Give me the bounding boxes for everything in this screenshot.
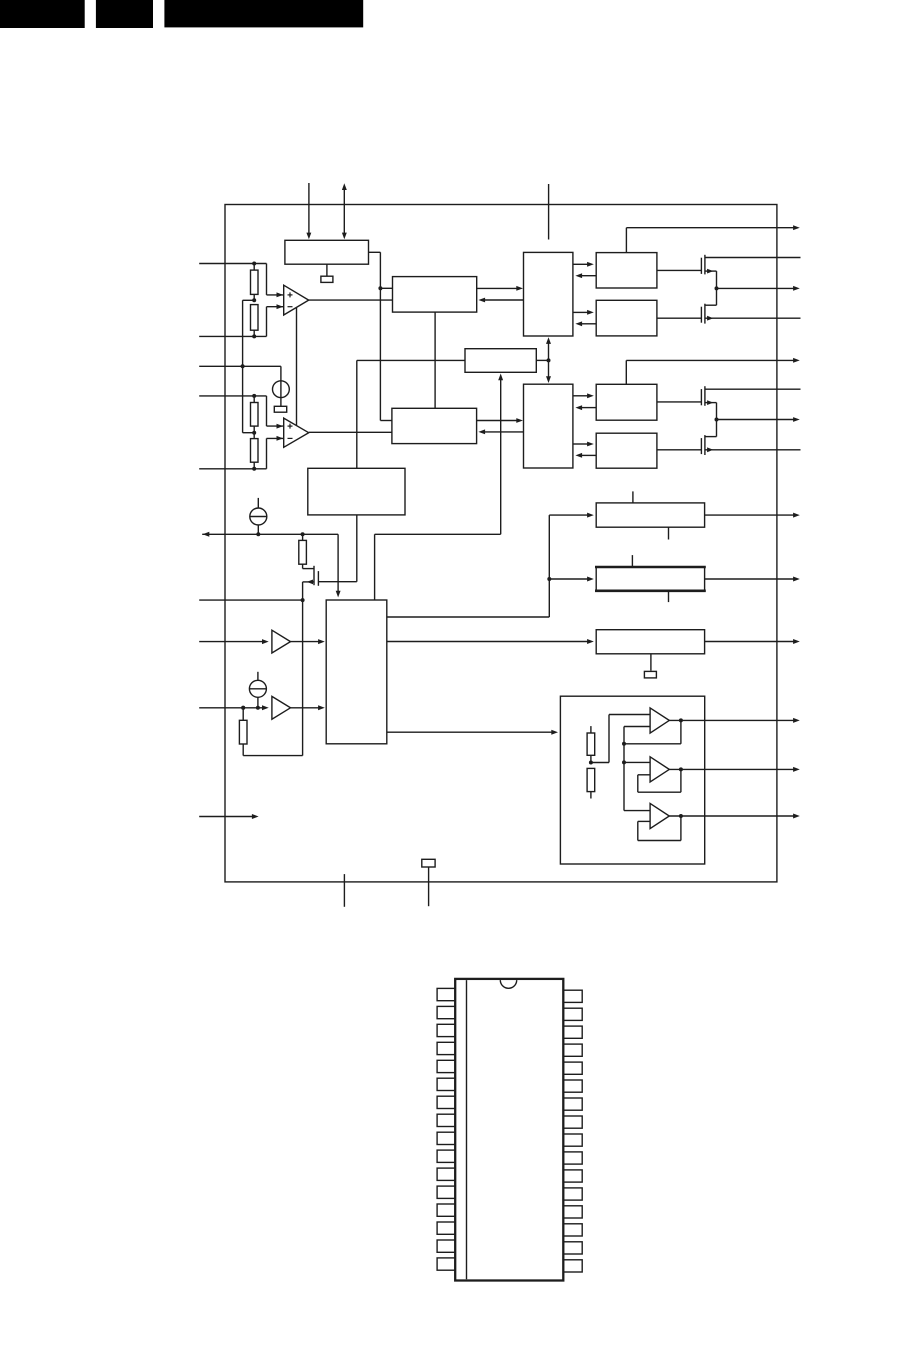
- node R5 top: [301, 532, 305, 536]
- node bus/U6 input: [622, 760, 626, 764]
- wire B4 to PWM2 (arrow): [477, 418, 523, 423]
- Q1 source wire: [705, 269, 717, 306]
- output wire row7 (arrow): [717, 417, 800, 422]
- wire B5 to M1 gate: [318, 515, 356, 582]
- B1 terminator rect: [321, 276, 333, 282]
- IC package body: [455, 979, 563, 1281]
- wire B2-B4: [434, 312, 436, 408]
- package pin 18 (right): [563, 1242, 582, 1254]
- op-amp U1: [284, 285, 309, 315]
- package pin 32 (right): [563, 990, 582, 1002]
- package pin 2 (left): [437, 1006, 455, 1018]
- wire U1 output to B2: [309, 299, 393, 301]
- package pin 27 (right): [563, 1080, 582, 1092]
- block B10: [596, 630, 704, 654]
- input wire pin (free arrow): [199, 814, 258, 819]
- block driver A: [596, 253, 657, 288]
- wire U2 output to B4: [309, 431, 392, 433]
- block B5: [308, 468, 405, 515]
- wire U5 feedback: [624, 720, 681, 743]
- node R3/R4 midpoint: [252, 431, 256, 435]
- package pin 19 (right): [563, 1224, 582, 1236]
- arrow into U2 -: [277, 436, 284, 441]
- transistor Q3 gate wire: [657, 401, 702, 403]
- node R1 top: [252, 262, 256, 266]
- transistor M1 gate bar: [317, 571, 319, 586]
- transistor Q4 gate wire: [657, 449, 702, 451]
- input wire pin (R2 bottom): [199, 307, 283, 337]
- wire B3 to PWM bus: [536, 359, 548, 361]
- op-amp U7: [650, 803, 669, 828]
- input wire pin U4 (arrow): [199, 705, 269, 710]
- wire B1 right to B2/B4 bus: [369, 252, 393, 420]
- package pin 29 (right): [563, 1044, 582, 1056]
- B10 terminator rect: [644, 671, 656, 678]
- package pin 24 (right): [563, 1134, 582, 1146]
- buffer U3: [272, 630, 291, 653]
- package pin 23 (right): [563, 1152, 582, 1164]
- pin-1 notch: [500, 980, 516, 988]
- block B8: [596, 503, 704, 527]
- op-amp U5: [650, 708, 669, 733]
- input wire pin (R1 top): [199, 264, 283, 295]
- transistor M1 channel bar: [313, 566, 315, 585]
- wire PWM2 to B4 (arrow): [478, 429, 523, 434]
- current source CS1: [273, 381, 290, 398]
- wire PWM2 to D (arrow): [573, 442, 594, 447]
- wire M1 source to R8: [243, 600, 302, 756]
- wire U7 output (arrow): [669, 814, 800, 819]
- block PWM1: [524, 252, 573, 336]
- package pin 11 (left): [437, 1168, 455, 1180]
- node bus/U5 feedback: [622, 742, 626, 746]
- node R2 bottom: [252, 334, 256, 338]
- wire B3 bottom to B7: [375, 374, 504, 601]
- transistor Q1 gate wire: [657, 269, 702, 271]
- M1 drain wire to R5: [303, 564, 314, 568]
- node CS2 tap: [256, 532, 260, 536]
- block driver D: [596, 433, 657, 468]
- arrow into U2 +: [277, 424, 284, 429]
- input wire pin (R3 top): [199, 396, 283, 426]
- node R1/R2 midpoint: [252, 298, 256, 302]
- block B9: [595, 567, 706, 591]
- package pin 21 (right): [563, 1188, 582, 1200]
- node B9 branch: [547, 577, 551, 581]
- B10 bottom stub: [650, 654, 652, 671]
- B9 bottom stub: [668, 591, 670, 602]
- package pin 9 (left): [437, 1132, 455, 1144]
- bottom pin stub 2: [428, 867, 430, 906]
- package pin 14 (left): [437, 1222, 455, 1234]
- package pin 22 (right): [563, 1170, 582, 1182]
- buffer U4: [272, 696, 291, 719]
- wire B7 to B11 (arrow): [387, 730, 558, 735]
- package pin 31 (right): [563, 1008, 582, 1020]
- output wire left (arrow out): [202, 532, 340, 598]
- output wire B10 (arrow): [705, 639, 800, 644]
- B8 bottom stub: [668, 527, 670, 539]
- wire B7 to B10 (arrow): [387, 639, 594, 644]
- resistor R4: [251, 433, 259, 469]
- wire PWM1 to B2 (arrow): [478, 298, 523, 303]
- wire D to PWM2 (arrow): [575, 453, 596, 458]
- block driver B: [596, 300, 657, 336]
- wire PWM1 to A (arrow): [573, 262, 594, 267]
- input wire pin (Vref): [199, 366, 281, 406]
- block B4: [392, 408, 477, 443]
- input wire pin (R4 bottom): [199, 438, 283, 468]
- node R6/R7: [589, 761, 593, 765]
- wire U6 feedback: [638, 769, 681, 792]
- package pin 13 (left): [437, 1204, 455, 1216]
- B8 top stub: [632, 491, 634, 503]
- node output row7: [715, 418, 719, 422]
- wire B7 to B8/B9 bus: [387, 513, 594, 617]
- block driver C: [596, 384, 657, 420]
- header bar 3: [164, 0, 363, 27]
- package inner line: [466, 980, 468, 1279]
- resistor R2: [251, 305, 259, 337]
- wire divider to U5 +: [591, 715, 650, 763]
- wire B2 to PWM1 (arrow): [477, 286, 523, 291]
- wire U5 output (arrow): [669, 718, 800, 723]
- block B3: [465, 349, 536, 373]
- block B7: [326, 600, 387, 744]
- header bar 1: [0, 0, 85, 28]
- B9 top stub: [631, 555, 633, 567]
- transistor Q2 channel bar: [704, 304, 706, 324]
- op-amp U6: [650, 757, 669, 782]
- package pin 15 (left): [437, 1240, 455, 1252]
- transistor Q3 gate bar: [700, 389, 702, 405]
- output wire B9 (arrow): [705, 577, 800, 582]
- transistor Q1 gate bar: [700, 258, 702, 274]
- Q2 source wire (output row4): [705, 316, 801, 321]
- package pin 5 (left): [437, 1060, 455, 1072]
- node R4 bottom: [252, 467, 256, 471]
- wire C to PWM2 (arrow): [575, 405, 596, 410]
- wire U6 output (arrow): [669, 767, 800, 772]
- input wire pin U3 (arrow): [199, 639, 269, 644]
- transistor Q2 gate wire: [657, 317, 702, 319]
- package pin 3 (left): [437, 1024, 455, 1036]
- output wire B8 (arrow): [705, 513, 800, 518]
- resistor R7: [587, 768, 595, 798]
- Q4 drain link: [705, 436, 717, 438]
- package pin 7 (left): [437, 1096, 455, 1108]
- resistor R5: [299, 534, 307, 564]
- package pin 10 (left): [437, 1150, 455, 1162]
- block B11: [560, 696, 704, 864]
- current source CS2: [250, 498, 267, 534]
- pin stub top 2 (double arrow): [342, 183, 347, 239]
- package pin 30 (right): [563, 1026, 582, 1038]
- node R8 tap: [241, 706, 245, 710]
- wire U3 output to B7 (arrow): [291, 639, 325, 644]
- package pin 17 (right): [563, 1260, 582, 1272]
- wire B to PWM1 (arrow): [575, 321, 596, 326]
- pin stub top 3: [548, 184, 550, 240]
- resistor R8: [239, 708, 247, 744]
- M1 source wire: [303, 580, 314, 601]
- block B2: [393, 277, 477, 313]
- node R8 top: [241, 706, 245, 710]
- wire A to PWM1 (arrow): [575, 273, 596, 278]
- transistor Q3 channel bar: [704, 386, 706, 406]
- transistor Q1 channel bar: [704, 255, 706, 275]
- IC outline box: [225, 205, 777, 882]
- transistor Q4 gate bar: [700, 438, 702, 454]
- wire B3 to B5: [357, 360, 465, 468]
- bus PWM1-PWM2 (double arrow): [546, 337, 551, 383]
- wire U1-U2 link: [296, 308, 298, 426]
- B1 terminator stub: [326, 264, 328, 276]
- wire PWM2 to C (arrow): [573, 393, 594, 398]
- Q2 drain link: [705, 304, 717, 306]
- wire U4 output to B7 (arrow): [291, 705, 325, 710]
- bottom terminator rect: [422, 859, 435, 867]
- pin stub top 1 (down arrow into B1): [306, 183, 311, 239]
- arrow into U1 +: [277, 292, 284, 297]
- package pin 16 (left): [437, 1258, 455, 1270]
- node M1 source: [301, 598, 305, 602]
- node U6 output: [679, 767, 683, 771]
- wire PWM1 to B (arrow): [573, 310, 594, 315]
- arrow into U1 -: [277, 304, 284, 309]
- package pin 26 (right): [563, 1098, 582, 1110]
- resistor R6: [587, 726, 595, 762]
- package pin 28 (right): [563, 1062, 582, 1074]
- package pin 20 (right): [563, 1206, 582, 1218]
- wire U7 feedback: [638, 816, 681, 841]
- resistor R3: [251, 396, 259, 433]
- transistor Q4 channel bar: [704, 435, 706, 455]
- package pin 6 (left): [437, 1078, 455, 1090]
- Q4 source wire (output row8): [705, 447, 801, 452]
- node CS3 tap: [256, 706, 260, 710]
- package pin 1 (left): [437, 988, 455, 1000]
- transistor Q2 gate bar: [700, 307, 702, 323]
- bottom pin stub 1: [343, 874, 345, 907]
- node B1 bus / B2 input: [378, 286, 382, 290]
- resistor R1: [251, 264, 259, 301]
- block B1: [285, 240, 369, 264]
- op-amp U2: [284, 418, 309, 447]
- Q3 source wire: [705, 400, 717, 436]
- header bar 2: [96, 0, 153, 28]
- feedback bus: [624, 727, 650, 811]
- package pin 8 (left): [437, 1114, 455, 1126]
- node PWM bus: [547, 358, 551, 362]
- Q3 drain wire (output row6): [705, 388, 801, 390]
- output wire row5 (arrow): [626, 358, 800, 384]
- input wire pin (M1 source): [199, 599, 302, 601]
- wire midpoint bus to U2 network: [243, 300, 255, 432]
- block PWM2: [524, 384, 573, 468]
- node Vref bus: [241, 364, 245, 368]
- package pin 25 (right): [563, 1116, 582, 1128]
- CS1 terminator rect: [274, 406, 286, 412]
- package pin 4 (left): [437, 1042, 455, 1054]
- node U5 output: [679, 718, 683, 722]
- current source CS3: [249, 672, 266, 708]
- output wire row3 (arrow): [717, 286, 800, 291]
- Q1 drain wire (output row2): [705, 257, 801, 259]
- node output row3: [715, 286, 719, 290]
- package pin 12 (left): [437, 1186, 455, 1198]
- node R3 top: [252, 394, 256, 398]
- node U7 output: [679, 814, 683, 818]
- output wire row1 (arrow): [626, 225, 799, 252]
